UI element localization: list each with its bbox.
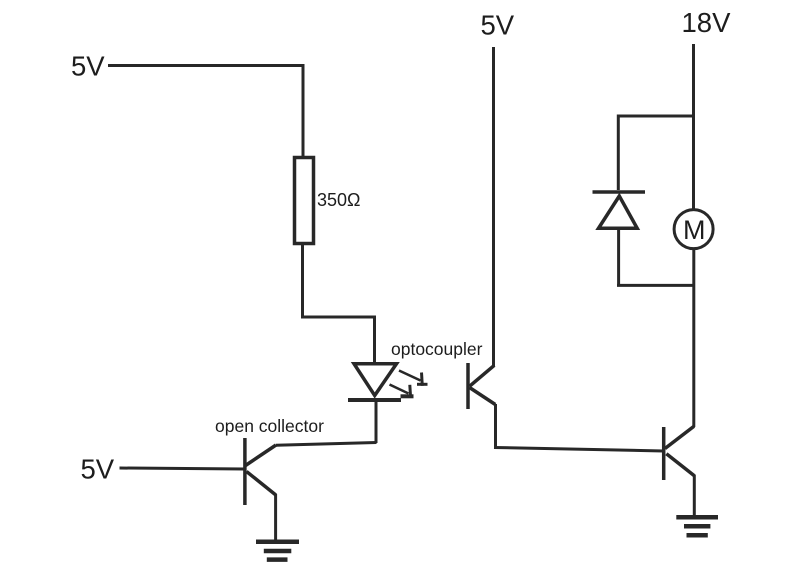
- diode D2 flyback, cathode bar: [593, 190, 646, 194]
- wire to Q3 base: [494, 448, 664, 452]
- wire jog right toward LED: [301, 316, 375, 319]
- wire motor bottom down to Q3 collector: [692, 249, 695, 428]
- wire 5V down to phototransistor: [492, 47, 495, 366]
- wire diode anode down: [617, 228, 620, 287]
- wire resistor bottom down: [301, 244, 304, 318]
- transistor Q1 open collector, base bar: [243, 438, 247, 505]
- transistor Q3 power, base bar: [662, 427, 666, 480]
- motor M1: [674, 210, 713, 249]
- transistor Q3 collector diagonal: [665, 426, 694, 448]
- wire horizontal to Q1 collector: [276, 443, 377, 446]
- diode D2 triangle: [599, 196, 638, 228]
- svg-text:18V: 18V: [682, 7, 732, 38]
- phototransistor Q2, base bar: [466, 363, 470, 409]
- LED D1 (optocoupler emitter diode): [354, 364, 397, 396]
- svg-text:M: M: [683, 215, 706, 245]
- transistor Q1 emitter diagonal: [247, 472, 276, 496]
- wire LED cathode down: [375, 400, 378, 444]
- svg-text:5V: 5V: [81, 454, 115, 485]
- wire Q1 emitter down: [274, 494, 277, 540]
- wire from 5V label to resistor top corner: [108, 64, 304, 67]
- light emission arrow 1: [399, 371, 421, 381]
- wire Q3 emitter down: [693, 475, 696, 517]
- wire vertical down to resistor R1: [302, 64, 305, 157]
- transistor Q3 emitter diagonal: [666, 454, 694, 476]
- wire bottom branch of diode to motor node: [617, 284, 694, 287]
- wire 18V down to motor: [692, 44, 695, 210]
- phototransistor Q2 emitter diagonal: [470, 388, 496, 405]
- wire down into LED anode: [373, 316, 376, 364]
- ground (under Q1): [256, 539, 299, 544]
- wire Q2 emitter down: [494, 404, 497, 448]
- resistor R1 350ohm: [295, 158, 314, 244]
- svg-text:350Ω: 350Ω: [317, 190, 361, 210]
- wire base input Q1: [120, 468, 245, 469]
- transistor Q1 collector diagonal: [246, 445, 277, 466]
- light emission arrow 2: [390, 385, 409, 394]
- phototransistor Q2 collector diagonal: [470, 365, 495, 386]
- wire top branch to flyback diode: [618, 115, 693, 118]
- svg-text:5V: 5V: [481, 9, 515, 40]
- LED cathode bar: [348, 398, 401, 402]
- ground (under Q3): [676, 515, 718, 520]
- svg-text:optocoupler: optocoupler: [391, 339, 483, 359]
- wire diode branch vertical upper: [617, 115, 620, 191]
- svg-text:open collector: open collector: [215, 416, 324, 436]
- svg-text:5V: 5V: [71, 51, 105, 82]
